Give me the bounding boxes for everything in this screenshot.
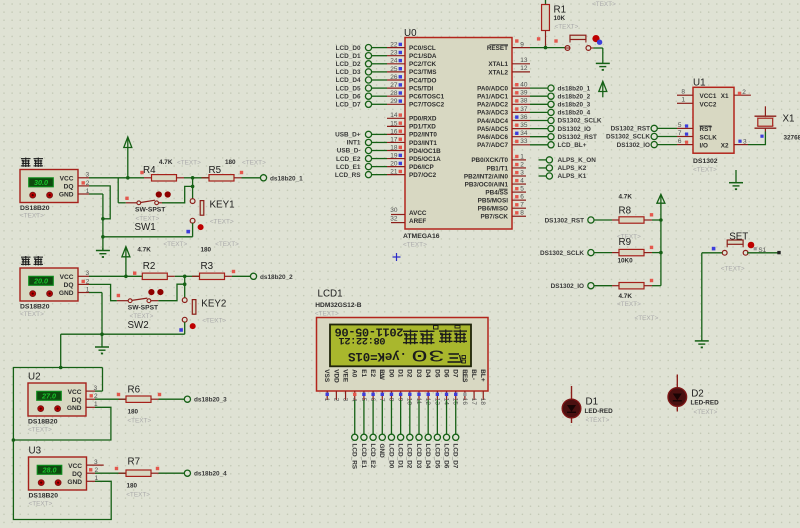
junction node A indoor — [183, 275, 187, 279]
svg-text:RES: RES — [461, 369, 468, 383]
svg-text:7: 7 — [678, 130, 682, 137]
svg-text:ds18b20_2: ds18b20_2 — [260, 274, 293, 281]
svg-text:ds18b20_2: ds18b20_2 — [558, 93, 591, 100]
switch SW1 SW-SPST — [125, 191, 170, 204]
crystal X1 — [755, 106, 777, 131]
ground indoor section — [95, 334, 109, 354]
LCD pin 12 — [424, 391, 431, 405]
LCD terminal net LCD_D3 — [415, 400, 422, 469]
svg-text:VCC2: VCC2 — [700, 101, 717, 108]
resistor R8 — [612, 213, 661, 223]
LCD pin 17 — [470, 391, 477, 405]
U3 pins 3 2 1 — [87, 459, 104, 482]
svg-text:D2: D2 — [691, 389, 704, 400]
svg-text:GND: GND — [67, 405, 82, 412]
junction node A outdoor — [191, 176, 195, 180]
push button KEY1 — [190, 199, 204, 230]
svg-text:PC7/TOSC2: PC7/TOSC2 — [409, 102, 445, 109]
svg-text:R2: R2 — [143, 261, 156, 272]
resistor R2 — [133, 272, 185, 280]
display LCD1 body — [317, 318, 489, 392]
chip U1 DS1302 body — [693, 87, 734, 153]
svg-text:3: 3 — [86, 172, 90, 179]
svg-text:SCLK: SCLK — [700, 134, 718, 141]
svg-text:1: 1 — [323, 398, 330, 402]
display LCD1 labels — [315, 289, 362, 318]
power VCC arrow outdoor — [124, 137, 132, 178]
svg-text:LCD_D7: LCD_D7 — [452, 444, 459, 469]
terminal ds18b20_1 — [260, 175, 303, 183]
svg-text:PB3/OC0/AIN1: PB3/OC0/AIN1 — [465, 181, 509, 188]
R9 labels — [618, 237, 634, 265]
SW2 labels — [128, 304, 160, 331]
svg-text:GND: GND — [378, 444, 385, 459]
svg-text:LCD_D3: LCD_D3 — [415, 444, 422, 469]
indoor sensor part name — [20, 304, 50, 318]
svg-text:USB_D-: USB_D- — [337, 148, 361, 155]
LCD pin names — [323, 369, 486, 383]
svg-text:D1: D1 — [397, 369, 404, 378]
LCD terminal net LCD_D2 — [406, 400, 413, 469]
LCD terminal net LCD_D6 — [442, 400, 449, 469]
svg-text:DQ: DQ — [72, 397, 82, 404]
svg-text:180: 180 — [128, 408, 139, 415]
svg-text:AREF: AREF — [409, 218, 426, 225]
svg-text:20.0: 20.0 — [33, 277, 48, 286]
LCD pin 1 — [323, 391, 330, 402]
terminal ds18b20_2 — [250, 273, 293, 281]
vertical VCC rail right of R8 R9 — [659, 218, 663, 286]
svg-text:2: 2 — [520, 161, 524, 168]
svg-text:PC2/TCK: PC2/TCK — [409, 61, 437, 68]
LED D2 labels — [691, 389, 720, 416]
U0 pin 23 LCD_D1 wire+terminal — [336, 50, 405, 60]
wire SW2 to node A indoor — [158, 282, 186, 300]
LCD small glyph marks — [434, 326, 461, 330]
U0 right pin names — [464, 45, 509, 221]
svg-text:20: 20 — [390, 161, 398, 168]
chip U2 label — [28, 372, 41, 383]
svg-text:<TEXT>: <TEXT> — [20, 212, 44, 219]
wire DQ pin2 indoor to SW2 — [89, 284, 117, 300]
SW1 labels — [135, 207, 167, 234]
svg-text:X2: X2 — [721, 142, 729, 149]
svg-text:30: 30 — [390, 207, 398, 214]
svg-text:DS1302: DS1302 — [693, 158, 718, 165]
svg-text:3: 3 — [520, 169, 524, 176]
U0 pin 21 net LCD_RS — [335, 169, 405, 179]
svg-text:LCD_D1: LCD_D1 — [397, 444, 404, 469]
svg-text:PC3/TMS: PC3/TMS — [409, 69, 437, 76]
LCD pin 6 — [369, 391, 376, 402]
svg-text:ds18b20_3: ds18b20_3 — [558, 102, 591, 109]
LCD big temperature digits — [411, 345, 445, 364]
ground outdoor section — [96, 248, 110, 258]
power VCC arrow indoor — [122, 247, 130, 277]
svg-text:3: 3 — [743, 138, 747, 145]
svg-text:35: 35 — [520, 122, 528, 129]
push button S1 SET — [712, 240, 767, 273]
svg-text:32768: 32768 — [784, 135, 800, 142]
svg-text:LCD_D3: LCD_D3 — [336, 69, 361, 76]
R4 labels — [143, 159, 201, 176]
svg-text:ds18b20_3: ds18b20_3 — [194, 397, 227, 404]
svg-text:15: 15 — [390, 120, 398, 127]
svg-text:17: 17 — [390, 136, 398, 143]
LCD pin 13 — [433, 391, 440, 405]
svg-text:36: 36 — [520, 114, 528, 121]
terminal ds18b20_3 — [184, 396, 227, 404]
svg-text:VSS: VSS — [323, 369, 330, 383]
svg-text:12: 12 — [520, 65, 528, 72]
svg-text:USB_D+: USB_D+ — [335, 132, 361, 139]
wire U2 DQ to R6 — [95, 398, 126, 400]
svg-text:PA3/ADC3: PA3/ADC3 — [477, 110, 508, 117]
outdoor sensor pins 3 2 1 — [78, 172, 90, 195]
svg-text:E2: E2 — [369, 369, 376, 377]
svg-text:40: 40 — [520, 82, 528, 89]
sensor DS18B20 indoor — [20, 268, 78, 301]
svg-text:PB7/SCK: PB7/SCK — [481, 214, 509, 221]
svg-text:<TEXT>: <TEXT> — [210, 218, 234, 225]
LCD pin 11 — [415, 391, 422, 405]
U0 pin 36 net DS1302_SCLK — [512, 114, 602, 125]
svg-text:23: 23 — [390, 50, 398, 57]
svg-text:SW-SPST: SW-SPST — [135, 207, 166, 214]
U1 pin names — [700, 93, 729, 149]
U2 pins 3 2 1 — [86, 385, 98, 408]
U0 pin 13 XTAL1 stub — [512, 57, 530, 64]
R2 label — [143, 261, 156, 272]
svg-text:18: 18 — [479, 398, 486, 406]
resistor R3 — [185, 270, 251, 280]
svg-text:SW-SPST: SW-SPST — [128, 304, 159, 311]
sensor DS18B20 outdoor — [20, 170, 78, 203]
LCD chinese glyph block 4 — [454, 330, 468, 344]
U0 pin 4 stub — [512, 177, 526, 184]
LCD pin 14 — [442, 391, 449, 405]
push button KEY2 — [182, 298, 196, 329]
junction reset node — [544, 46, 548, 50]
wire GND pin1 outdoor — [89, 194, 105, 251]
svg-text:R5: R5 — [209, 165, 222, 176]
svg-text:PD0/RXD: PD0/RXD — [409, 116, 437, 123]
U1 part name DS1302 — [693, 158, 718, 174]
svg-text:180: 180 — [127, 482, 138, 489]
svg-text:DS1302_RST: DS1302_RST — [558, 134, 598, 141]
svg-text:DQ: DQ — [64, 282, 74, 289]
svg-text:BL-: BL- — [470, 369, 477, 380]
svg-text:LCD_D6: LCD_D6 — [442, 444, 449, 469]
svg-text:PC5/TDI: PC5/TDI — [409, 85, 434, 92]
terminal net DS1302_RST — [545, 217, 612, 225]
LCD text date row — [335, 325, 404, 339]
svg-text:34: 34 — [520, 130, 528, 137]
svg-text:DS1302_RST: DS1302_RST — [545, 217, 585, 224]
svg-text:<TEXT>: <TEXT> — [242, 160, 266, 167]
svg-text:PA6/ADC6: PA6/ADC6 — [477, 134, 508, 141]
svg-text:LCD_D5: LCD_D5 — [433, 444, 440, 469]
U0 pin 33 net LCD_BL+ — [512, 138, 587, 149]
U0 pin 19 net LCD_E2 — [336, 152, 405, 162]
svg-text:VCC1: VCC1 — [700, 93, 717, 100]
svg-text:LCD_E2: LCD_E2 — [369, 444, 376, 469]
svg-text:4.7K: 4.7K — [619, 193, 633, 200]
resistor R1 — [537, 5, 550, 48]
ground below SET — [695, 339, 709, 348]
label 室外 outdoor — [21, 158, 43, 168]
terminal net DS1302_SCLK — [540, 250, 612, 258]
terminal net DS1302_IO — [551, 283, 612, 291]
svg-text:PD6/ICP: PD6/ICP — [409, 164, 434, 171]
svg-text:LCD_D0: LCD_D0 — [336, 45, 361, 52]
LCD pin 9 — [397, 391, 404, 402]
LCD terminal net GND — [378, 400, 385, 458]
svg-text:<TEXT>: <TEXT> — [635, 315, 659, 322]
LCD text key row — [348, 349, 407, 363]
LCD terminal net LCD_RS — [351, 400, 358, 470]
svg-text:DS1302_IO: DS1302_IO — [558, 126, 591, 133]
svg-text:HDM32GS12-B: HDM32GS12-B — [315, 302, 361, 309]
svg-text:PD5/OC1A: PD5/OC1A — [409, 156, 441, 163]
wire node A down to KEY1 — [192, 178, 194, 199]
U0 left pin names — [409, 45, 445, 225]
power VCC arrow above R8 — [657, 194, 665, 220]
chip U3 label — [29, 446, 42, 457]
svg-text:ds18b20_4: ds18b20_4 — [194, 471, 227, 478]
svg-text:LCD_D2: LCD_D2 — [336, 61, 361, 68]
U0 pin 14 stub — [387, 112, 405, 119]
resistor R5 — [193, 171, 261, 181]
svg-text:27: 27 — [390, 82, 398, 89]
svg-text:U3: U3 — [29, 446, 42, 457]
svg-text:R3: R3 — [201, 261, 214, 272]
U0 pin 8 stub — [512, 210, 526, 217]
U0 pin 6 stub — [512, 194, 526, 201]
svg-text:D1: D1 — [586, 397, 599, 408]
svg-text:<TEXT>: <TEXT> — [694, 409, 718, 416]
svg-text:29: 29 — [390, 98, 398, 105]
svg-text:PD4/OC1B: PD4/OC1B — [409, 148, 441, 155]
U0 pin 16 net USB_D+ — [335, 128, 405, 138]
svg-text:PA5/ADC5: PA5/ADC5 — [477, 126, 508, 133]
svg-text:PC0/SCL: PC0/SCL — [409, 45, 436, 52]
switch SW2 SW-SPST — [117, 289, 164, 303]
R2 R3 value labels — [137, 241, 239, 254]
svg-text:VCC: VCC — [68, 463, 82, 470]
svg-text:ALPS_K_ON: ALPS_K_ON — [558, 157, 597, 164]
svg-text:SW2: SW2 — [128, 320, 149, 331]
svg-text:1: 1 — [681, 97, 685, 104]
LCD pin 7 — [378, 391, 385, 402]
svg-text:21: 21 — [390, 169, 398, 176]
wire U2 GND loop — [12, 366, 111, 442]
U0 pin 25 LCD_D3 wire+terminal — [336, 66, 405, 76]
U0 pin 3 net ALPS_K1 — [512, 169, 587, 180]
LCD chinese glyph block 2 — [420, 330, 435, 345]
terminal ds18b20_4 — [184, 470, 227, 478]
svg-text:<TEXT>: <TEXT> — [163, 241, 187, 248]
svg-text:<TEXT>: <TEXT> — [29, 500, 53, 507]
svg-text:XTAL1: XTAL1 — [488, 61, 508, 68]
svg-text:13: 13 — [520, 57, 528, 64]
microcontroller U0 label — [404, 28, 417, 39]
svg-text:DS1302_IO: DS1302_IO — [551, 283, 584, 290]
U0 pin 20 net LCD_E1 — [336, 161, 405, 171]
svg-text:LCD_E1: LCD_E1 — [336, 164, 361, 171]
U0 pin 35 net DS1302_IO — [512, 122, 591, 133]
svg-text:<TEXT>: <TEXT> — [586, 417, 610, 424]
reset push button — [554, 1, 616, 50]
LCD terminal net LCD_E2 — [369, 400, 376, 468]
svg-text:PA1/ADC1: PA1/ADC1 — [477, 94, 508, 101]
svg-text:PB5/MOSI: PB5/MOSI — [478, 197, 509, 204]
svg-text:33: 33 — [520, 138, 528, 145]
wire S1 to ground — [702, 253, 723, 340]
svg-text:VCC: VCC — [60, 176, 74, 183]
svg-text:R9: R9 — [619, 237, 632, 248]
svg-text:DS1302_SCLK: DS1302_SCLK — [540, 250, 584, 257]
svg-text:DS18B20: DS18B20 — [29, 493, 59, 500]
svg-text:4.7K: 4.7K — [159, 159, 173, 166]
LCD terminal net LCD_E1 — [360, 400, 367, 468]
svg-text:XTAL2: XTAL2 — [488, 69, 508, 76]
svg-text:08:22:21: 08:22:21 — [339, 334, 386, 346]
wire VCC to R1 top — [545, 0, 547, 5]
svg-text:4.7K: 4.7K — [619, 293, 633, 300]
svg-text:KEY2: KEY2 — [201, 299, 226, 310]
LED D2 — [668, 375, 687, 412]
svg-text:LCD_RS: LCD_RS — [351, 444, 358, 470]
LCD pin 16 — [461, 391, 468, 405]
svg-text:27.0: 27.0 — [41, 392, 56, 401]
svg-text:6: 6 — [678, 138, 682, 145]
LCD pin 3 — [341, 391, 348, 402]
svg-text:14: 14 — [390, 112, 398, 119]
LCD pin 10 — [406, 391, 413, 405]
U1 pin 2 X1 stub — [734, 89, 751, 96]
U0 pin 9 RESET wire — [512, 39, 565, 48]
U0 pin 2 net ALPS_K2 — [512, 161, 587, 172]
svg-text:<TEXT>: <TEXT> — [592, 1, 616, 8]
svg-text:PB6/MISO: PB6/MISO — [478, 206, 508, 213]
svg-text:28: 28 — [390, 90, 398, 97]
svg-text:LCD_D4: LCD_D4 — [336, 77, 361, 84]
svg-text:25: 25 — [390, 66, 398, 73]
U0 pin 18 net USB_D- — [337, 144, 405, 154]
svg-text:30: 30 — [411, 345, 445, 364]
svg-text:VCC: VCC — [68, 389, 82, 396]
svg-text:26: 26 — [390, 74, 398, 81]
svg-text:3: 3 — [341, 398, 348, 402]
U0 pin 40 net ds18b20_1 — [512, 82, 591, 93]
ground below U1 — [729, 170, 743, 190]
LCD terminal net LCD_D1 — [397, 400, 404, 469]
sensor DS18B20 U3 — [29, 457, 87, 490]
R3 label — [201, 261, 214, 272]
svg-text:32: 32 — [390, 215, 398, 222]
svg-text:PD3/INT1: PD3/INT1 — [409, 140, 437, 147]
LCD pin 2 — [332, 391, 339, 402]
svg-text:<TEXT>: <TEXT> — [126, 491, 150, 498]
svg-text:180: 180 — [225, 159, 236, 166]
svg-text:4.7K: 4.7K — [137, 247, 151, 254]
svg-text:28.0: 28.0 — [42, 466, 57, 475]
svg-text:7: 7 — [520, 202, 524, 209]
U0 pin 38 net ds18b20_3 — [512, 98, 591, 109]
svg-text:VDD: VDD — [332, 369, 339, 383]
wire U2 VCC riser — [95, 368, 103, 392]
svg-text:PB2/INT2/AIN0: PB2/INT2/AIN0 — [464, 173, 509, 180]
svg-text:10K: 10K — [554, 15, 566, 22]
wire DQ pin2 outdoor — [89, 186, 110, 219]
LCD terminal net LCD_D4 — [424, 400, 431, 469]
LCD screen — [330, 325, 471, 367]
U0 pin 17 net INT1 — [347, 136, 405, 146]
svg-text:GND: GND — [59, 192, 74, 199]
U1 pin 6 terminal net DS1302_IO — [617, 138, 693, 149]
svg-text:LED-RED: LED-RED — [585, 408, 614, 415]
svg-text:PD1/TXD: PD1/TXD — [409, 124, 436, 131]
resistor R4 — [140, 171, 192, 181]
svg-text:<TEXT>: <TEXT> — [215, 241, 239, 248]
svg-text:<TEXT>: <TEXT> — [617, 301, 641, 308]
LCD terminal net LCD_D0 — [387, 400, 394, 469]
wire down to U2 loop — [60, 334, 62, 367]
svg-text:LCD_D7: LCD_D7 — [336, 102, 361, 109]
svg-text:3: 3 — [86, 270, 90, 277]
svg-text:<TEXT>: <TEXT> — [28, 426, 52, 433]
resistor R6 — [117, 393, 185, 403]
LCD chinese glyph block 1 — [403, 330, 418, 345]
svg-text:1: 1 — [520, 153, 524, 160]
svg-text:LCD_D6: LCD_D6 — [336, 93, 361, 100]
svg-text:LCD_RS: LCD_RS — [335, 172, 361, 179]
resistor R7 — [115, 467, 185, 477]
svg-text:6: 6 — [520, 194, 524, 201]
wire GND pin1 indoor — [89, 293, 102, 335]
svg-text:38: 38 — [520, 98, 528, 105]
svg-text:39: 39 — [520, 90, 528, 97]
svg-text:8: 8 — [681, 88, 685, 95]
svg-text:2: 2 — [742, 89, 746, 96]
svg-text:DQ: DQ — [72, 471, 82, 478]
svg-text:VEE: VEE — [341, 369, 348, 383]
svg-text:ds18b20_1: ds18b20_1 — [270, 175, 303, 182]
resistor R10 — [612, 279, 661, 289]
LED D1 labels — [585, 397, 614, 424]
wire U3 GND loop — [13, 440, 111, 520]
U1 pin 5 terminal net DS1302_RST — [611, 122, 693, 133]
svg-text:R4: R4 — [143, 165, 156, 176]
svg-text:.yeK=01S: .yeK=01S — [348, 349, 407, 363]
svg-text:2: 2 — [332, 398, 339, 402]
svg-text:<TEXT>: <TEXT> — [315, 311, 339, 318]
wire VCC pin3 to R2 — [89, 275, 142, 279]
svg-text:LCD1: LCD1 — [318, 289, 343, 300]
origin marker cross — [393, 253, 401, 261]
U0 pin 27 LCD_D5 wire+terminal — [336, 82, 405, 92]
svg-text:D4: D4 — [424, 369, 431, 378]
SET button label — [729, 232, 748, 243]
svg-text:D6: D6 — [442, 369, 449, 378]
svg-text:ALPS_K1: ALPS_K1 — [558, 173, 587, 180]
svg-text:8: 8 — [520, 210, 524, 217]
svg-text:DS18B20: DS18B20 — [20, 205, 50, 212]
svg-text:VCC: VCC — [60, 274, 74, 281]
U1 pin 7 terminal net DS1302_SCLK — [606, 130, 693, 141]
R1 labels 10K — [554, 5, 579, 31]
